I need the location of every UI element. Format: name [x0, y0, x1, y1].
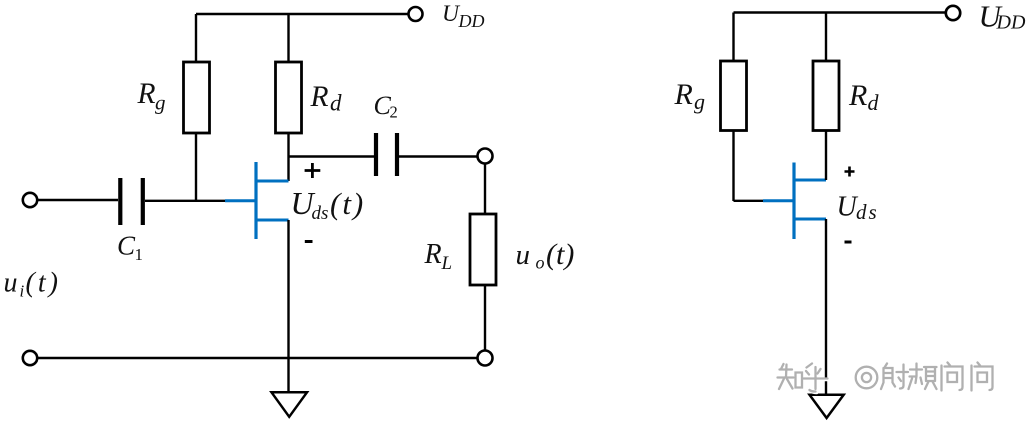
capacitor C1	[120, 178, 143, 225]
wire top rail right circuit	[734, 11, 946, 13]
svg-text:DD: DD	[996, 12, 1026, 34]
wire R_g right top lead	[732, 13, 734, 62]
label U_ds right	[837, 192, 879, 225]
label R_L	[424, 239, 453, 274]
label R_d right	[848, 79, 880, 115]
wire R_g top lead	[195, 14, 197, 62]
label minus left	[305, 240, 313, 243]
char wen2	[973, 364, 994, 392]
transistor Q2 channel bar (blue)	[792, 163, 795, 240]
terminal output top	[478, 149, 493, 164]
svg-text:L: L	[441, 253, 453, 274]
svg-text:2: 2	[390, 103, 398, 122]
wire output terminal to R_L	[484, 164, 486, 215]
svg-text:d: d	[868, 90, 880, 115]
label U_ds(t)	[291, 185, 366, 224]
wire R_d right bottom lead to drain	[825, 131, 827, 181]
capacitor C2	[376, 133, 397, 176]
svg-text:R: R	[674, 78, 693, 111]
transistor Q2 gate lead (blue)	[763, 199, 793, 202]
resistor R_g	[184, 62, 210, 133]
label plus left	[305, 163, 321, 178]
wire R_d bottom lead down to drain	[287, 133, 289, 181]
wire bottom rail	[37, 357, 477, 359]
svg-text:ds: ds	[856, 200, 879, 224]
svg-text:DD: DD	[458, 11, 485, 31]
wire input to C1	[37, 199, 118, 201]
terminal UDD right	[946, 6, 960, 20]
wire source right down to ground	[825, 219, 827, 394]
svg-text:i: i	[20, 282, 25, 301]
wire top rail left circuit	[196, 13, 409, 15]
char zhi	[779, 365, 804, 390]
svg-text:(t): (t)	[330, 186, 365, 221]
wire C1 to gate (black part)	[145, 200, 226, 202]
terminal input top left	[23, 193, 37, 207]
wire R_d top lead	[287, 14, 289, 62]
char wen1	[942, 363, 963, 391]
transistor Q1 source lead (blue)	[256, 219, 289, 222]
wire R_g right bottom lead to gate	[732, 131, 734, 202]
svg-text:u: u	[516, 239, 531, 271]
label u_o(t)	[516, 238, 575, 273]
wire gate black part right	[734, 200, 765, 202]
wire R_d right top lead	[825, 13, 827, 62]
svg-text:u: u	[4, 268, 18, 299]
svg-text:1: 1	[135, 245, 144, 264]
resistor R_d right	[813, 61, 839, 131]
char pin	[910, 365, 938, 391]
svg-text:R: R	[424, 239, 442, 270]
label C_2	[374, 91, 398, 121]
char wen2	[972, 363, 993, 391]
svg-text:R: R	[310, 81, 329, 113]
label C_1	[117, 230, 143, 264]
transistor Q1 drain lead (blue)	[256, 180, 289, 183]
label u_i(t)	[4, 268, 61, 301]
terminal output bottom	[478, 351, 493, 366]
svg-text:ds: ds	[312, 203, 329, 224]
ground left	[272, 392, 308, 417]
label plus right	[845, 167, 855, 177]
char pin	[909, 364, 937, 390]
resistor R_L	[470, 214, 496, 285]
wire source down through bottom rail to ground	[287, 220, 289, 392]
char wen1	[943, 364, 964, 392]
label U_DD left	[442, 1, 485, 31]
resistor R_d	[276, 62, 302, 133]
char hu	[805, 365, 829, 393]
svg-text:g: g	[694, 89, 705, 114]
wire R_L bottom to output terminal bottom	[484, 285, 486, 351]
char at	[857, 368, 879, 390]
terminal UDD left	[409, 7, 423, 21]
wire R_g bottom lead to gate node	[195, 133, 197, 201]
svg-text:(t): (t)	[546, 238, 574, 271]
transistor Q2 drain lead (blue)	[794, 179, 826, 182]
char she	[882, 365, 909, 391]
label minus right	[845, 241, 852, 244]
svg-text:g: g	[155, 91, 166, 115]
transistor Q1 channel bar (blue)	[254, 162, 257, 239]
char hu	[804, 364, 828, 392]
svg-text:o: o	[536, 253, 545, 273]
svg-text:R: R	[137, 78, 156, 110]
svg-text:d: d	[330, 91, 342, 116]
label R_d	[310, 81, 343, 116]
svg-text:R: R	[848, 79, 867, 112]
transistor Q2 source lead (blue)	[794, 218, 826, 221]
label R_g right	[674, 78, 706, 114]
label R_g	[137, 78, 166, 115]
watermark zhihu	[779, 364, 994, 393]
terminal input bottom left	[23, 351, 37, 365]
char zhi	[778, 364, 803, 389]
char she	[881, 364, 908, 390]
wire drain node to C2	[289, 155, 375, 157]
transistor Q1 gate lead (blue)	[225, 199, 255, 202]
ground right	[810, 395, 844, 418]
label U_DD right	[979, 0, 1026, 34]
char at	[856, 367, 878, 389]
svg-text:C: C	[117, 230, 136, 260]
resistor R_g right	[721, 61, 747, 131]
svg-text:(t): (t)	[26, 268, 61, 299]
wire C2 to output terminal	[399, 155, 478, 157]
